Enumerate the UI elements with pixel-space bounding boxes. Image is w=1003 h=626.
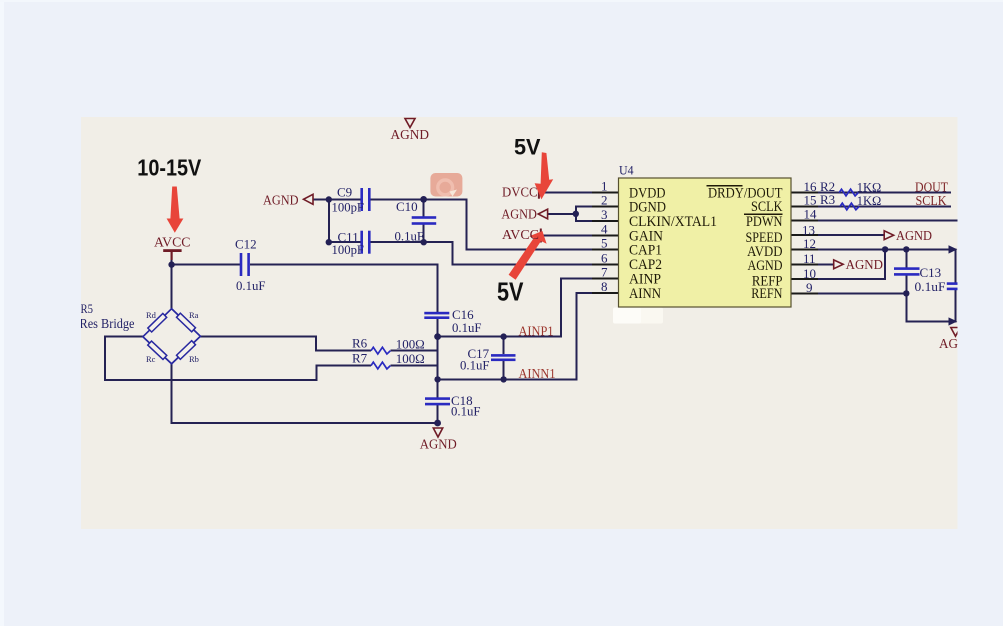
svg-text:2: 2 bbox=[601, 193, 608, 208]
svg-text:Ra: Ra bbox=[189, 310, 199, 320]
svg-text:11: 11 bbox=[803, 251, 816, 266]
svg-text:Rc: Rc bbox=[146, 354, 156, 364]
svg-text:AGND: AGND bbox=[501, 207, 537, 222]
svg-text:AINN: AINN bbox=[629, 286, 661, 302]
svg-text:12: 12 bbox=[803, 236, 816, 251]
svg-text:CAP1: CAP1 bbox=[629, 243, 662, 259]
svg-text:Rb: Rb bbox=[189, 354, 199, 364]
svg-text:AVCC: AVCC bbox=[154, 235, 191, 250]
svg-text:AGND: AGND bbox=[748, 258, 783, 274]
svg-text:R6: R6 bbox=[352, 336, 368, 351]
svg-text:100Ω: 100Ω bbox=[396, 336, 425, 351]
svg-text:100pF: 100pF bbox=[332, 242, 365, 257]
svg-text:3: 3 bbox=[601, 207, 608, 222]
svg-text:C9: C9 bbox=[337, 185, 352, 200]
svg-text:14: 14 bbox=[804, 207, 818, 222]
svg-text:10: 10 bbox=[803, 266, 816, 281]
svg-text:0.1uF: 0.1uF bbox=[395, 229, 425, 244]
svg-text:0.1uF: 0.1uF bbox=[451, 404, 481, 419]
svg-text:Res Bridge: Res Bridge bbox=[80, 316, 135, 331]
svg-text:AGND: AGND bbox=[391, 127, 430, 142]
svg-text:R5: R5 bbox=[81, 301, 94, 316]
svg-text:AINP1: AINP1 bbox=[519, 323, 554, 338]
svg-text:R7: R7 bbox=[352, 350, 368, 365]
svg-text:C10: C10 bbox=[396, 199, 418, 214]
svg-text:7: 7 bbox=[601, 265, 608, 280]
svg-text:AGND: AGND bbox=[896, 228, 932, 243]
svg-text:REFN: REFN bbox=[751, 286, 783, 302]
svg-text:1KΩ: 1KΩ bbox=[857, 193, 882, 208]
svg-text:5V: 5V bbox=[514, 134, 541, 159]
svg-text:DVCC: DVCC bbox=[502, 184, 538, 199]
svg-text:AGND: AGND bbox=[420, 436, 457, 451]
svg-text:0.1uF: 0.1uF bbox=[915, 279, 946, 294]
svg-text:PDWN: PDWN bbox=[746, 214, 783, 230]
svg-text:1: 1 bbox=[601, 178, 608, 193]
svg-text:5: 5 bbox=[601, 236, 608, 251]
svg-text:100Ω: 100Ω bbox=[396, 351, 425, 366]
svg-text:U4: U4 bbox=[619, 163, 634, 178]
svg-text:R3: R3 bbox=[820, 192, 835, 207]
svg-text:AINN1: AINN1 bbox=[519, 366, 556, 381]
svg-text:AVCC: AVCC bbox=[502, 227, 539, 242]
svg-text:9: 9 bbox=[806, 280, 813, 295]
svg-text:0.1uF: 0.1uF bbox=[460, 357, 490, 372]
svg-text:SCLK: SCLK bbox=[751, 199, 783, 215]
svg-text:0.1uF: 0.1uF bbox=[452, 320, 482, 335]
svg-text:100pF: 100pF bbox=[332, 200, 365, 215]
svg-text:Rd: Rd bbox=[146, 310, 157, 320]
svg-text:C12: C12 bbox=[235, 237, 257, 252]
svg-text:15: 15 bbox=[804, 193, 817, 208]
svg-text:SCLK: SCLK bbox=[916, 193, 947, 208]
svg-text:6: 6 bbox=[601, 250, 608, 265]
svg-text:8: 8 bbox=[601, 279, 608, 294]
svg-text:4: 4 bbox=[601, 222, 608, 237]
svg-text:AGND: AGND bbox=[263, 193, 299, 208]
svg-text:0.1uF: 0.1uF bbox=[236, 278, 266, 293]
svg-text:C13: C13 bbox=[920, 265, 942, 280]
svg-text:10-15V: 10-15V bbox=[137, 154, 201, 180]
svg-text:5V: 5V bbox=[497, 277, 524, 307]
svg-text:AGND: AGND bbox=[846, 257, 884, 272]
